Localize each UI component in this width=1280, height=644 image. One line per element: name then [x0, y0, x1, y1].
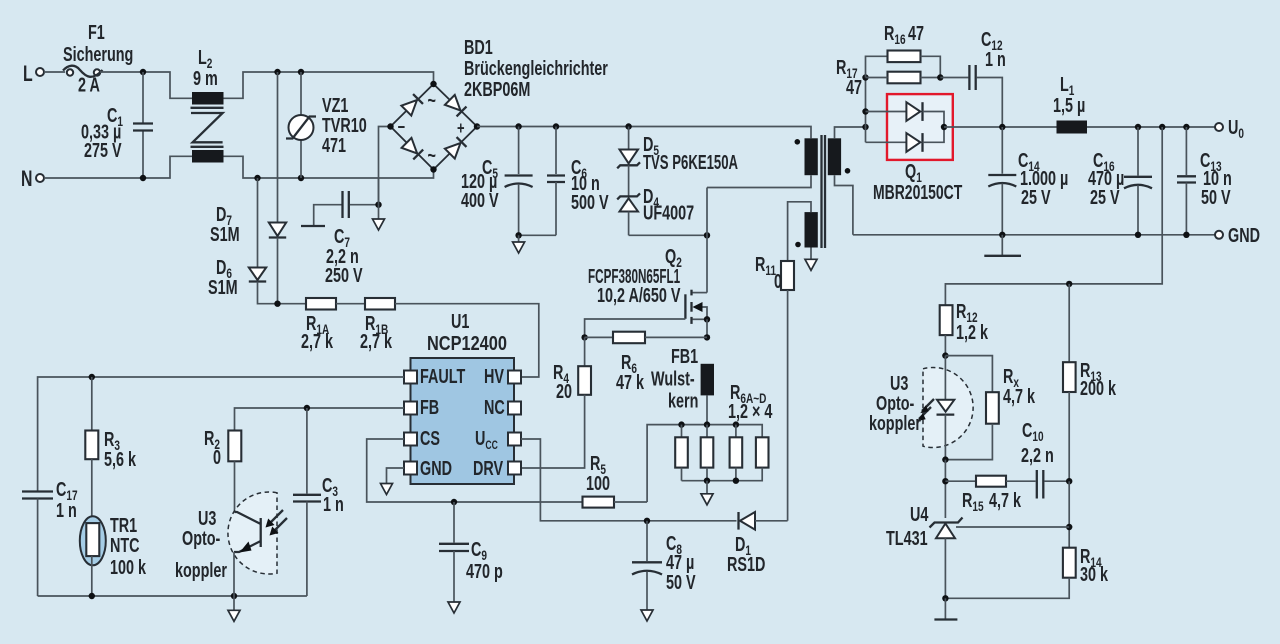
diode D4: [617, 165, 707, 235]
junction C1 top: [140, 69, 146, 75]
transformer auxiliary winding: [788, 202, 818, 261]
junction D6 top: [254, 175, 260, 181]
svg-text:1,2 × 4: 1,2 × 4: [728, 400, 773, 423]
resistor R1B: [360, 298, 395, 353]
wire source to R6 node: [706, 319, 708, 337]
svg-text:DRV: DRV: [473, 457, 503, 480]
svg-text:2KBP06M: 2KBP06M: [464, 78, 530, 101]
capacitor C13: [1177, 127, 1232, 235]
ground below C8: [641, 610, 653, 621]
junction C10 right: [1066, 478, 1072, 484]
choke L2: [191, 46, 224, 163]
capacitor C8 (electrolytic): [632, 521, 696, 610]
junction LED cathode: [942, 456, 948, 462]
wire bridge minus to C7 node: [379, 127, 391, 205]
svg-text:Opto-: Opto-: [182, 527, 221, 550]
svg-text:2,7 k: 2,7 k: [301, 330, 333, 353]
ground rail bottom left: [38, 595, 307, 597]
fuse F1: [63, 21, 133, 96]
junction Q1 cathode: [941, 124, 947, 130]
svg-text:1,2 k: 1,2 k: [956, 321, 988, 344]
resistor R6D: [728, 381, 773, 468]
transformer TR primary winding: [707, 138, 818, 187]
svg-text:NCP12400: NCP12400: [427, 332, 507, 355]
svg-text:0: 0: [774, 270, 782, 293]
junction D7 bottom: [274, 301, 280, 307]
svg-text:S1M: S1M: [210, 223, 240, 246]
pin FAULT: [404, 371, 417, 384]
junction R13 top: [1066, 281, 1072, 287]
svg-text:FAULT: FAULT: [420, 365, 466, 388]
junction LED anode: [942, 352, 948, 358]
output ground bar below C14: [984, 235, 1021, 256]
resistor R11: [755, 253, 794, 521]
junction feedback tap: [1159, 124, 1165, 130]
resistor R4: [521, 337, 591, 468]
resistor R6B: [701, 425, 714, 481]
junction shunt top c: [733, 421, 739, 427]
svg-text:FB: FB: [420, 396, 439, 419]
wire FB line: [235, 408, 405, 431]
svg-text:4,7 k: 4,7 k: [989, 489, 1021, 512]
junction R6 left / R4 top: [581, 334, 587, 340]
capacitor C16 (electrolytic): [1088, 127, 1152, 235]
junction Q2 source: [704, 316, 710, 322]
junction C8 top: [644, 518, 650, 524]
svg-text:F1: F1: [88, 21, 105, 44]
svg-text:470 p: 470 p: [466, 560, 503, 583]
junction C16 bottom: [1135, 232, 1141, 238]
junction TR1 bottom: [89, 593, 95, 599]
svg-text:N: N: [21, 168, 32, 192]
svg-text:Wulst-: Wulst-: [651, 367, 695, 390]
junction R16 right: [937, 74, 943, 80]
svg-text:250 V: 250 V: [325, 264, 363, 287]
junction C16: [1135, 124, 1141, 130]
wire R13 to R14 column: [1068, 481, 1070, 548]
pin DRV: [508, 462, 521, 475]
svg-text:2 A: 2 A: [78, 73, 100, 96]
junction C5: [515, 123, 521, 129]
svg-text:275 V: 275 V: [84, 139, 122, 162]
diode D5 TVS: [617, 127, 738, 174]
junction D5: [625, 123, 631, 129]
svg-text:HV: HV: [484, 365, 504, 388]
capacitor C7: [314, 178, 379, 287]
svg-text:471: 471: [322, 134, 346, 157]
svg-text:1,5 µ: 1,5 µ: [1053, 94, 1085, 117]
svg-text:RS1D: RS1D: [727, 553, 765, 576]
resistor R2: [204, 427, 241, 512]
svg-text:30 k: 30 k: [1080, 563, 1108, 586]
junction C13 bottom: [1183, 232, 1189, 238]
svg-text:50 V: 50 V: [666, 571, 696, 594]
resistor R6A: [675, 425, 688, 481]
inductor L1: [1053, 73, 1087, 134]
junction C3 top: [304, 405, 310, 411]
resistor R15: [945, 476, 1035, 515]
svg-text:TL431: TL431: [886, 527, 928, 550]
svg-text:100 k: 100 k: [110, 556, 146, 579]
svg-text:5,6 k: 5,6 k: [104, 448, 136, 471]
resistor R12: [940, 300, 989, 356]
capacitor C14 (electrolytic): [988, 127, 1068, 235]
dual diode Q1 bottom half: [866, 127, 963, 204]
ground below rail: [228, 596, 240, 621]
red highlight box around Q1: [887, 94, 953, 160]
svg-text:CS: CS: [420, 427, 440, 450]
svg-text:2,2 n: 2,2 n: [1021, 444, 1054, 467]
shunt network R6A~D top rail: [647, 425, 762, 502]
junction TL431 anode: [942, 595, 948, 601]
diode D6: [208, 178, 266, 299]
resistor R1A: [301, 298, 336, 353]
svg-text:L: L: [23, 63, 33, 87]
svg-text:U1: U1: [451, 310, 470, 333]
wire L1 to U0: [1087, 126, 1215, 128]
svg-text:−: −: [398, 118, 406, 138]
svg-text:NC: NC: [484, 396, 505, 419]
junction C1 bottom: [140, 175, 146, 181]
thermistor TR1 NTC: [80, 514, 146, 596]
wire L to fuse: [44, 71, 65, 73]
terminal N: [21, 168, 44, 192]
capacitor C3: [293, 408, 344, 596]
ground (primary) below C7 node: [373, 205, 385, 230]
svg-text:TVS P6KE150A: TVS P6KE150A: [643, 151, 738, 174]
resistor Rx: [945, 356, 1035, 460]
capacitor C12: [940, 28, 1005, 127]
wire LED cathode down: [944, 460, 946, 518]
junction shunt bottom b: [733, 478, 739, 484]
svg-text:UF4007: UF4007: [643, 201, 694, 224]
junction R17 left: [862, 74, 868, 80]
wire drain column: [706, 188, 708, 293]
svg-text:100: 100: [586, 472, 610, 495]
pin UCC: [508, 433, 521, 446]
junction VZ1 top: [298, 69, 304, 75]
junction Q1 anode mid: [862, 124, 868, 130]
svg-text:GND: GND: [420, 457, 452, 480]
transformer core: [822, 135, 826, 248]
wire TL431 ref line: [956, 526, 1069, 528]
junction C7 right: [375, 202, 381, 208]
wire N to L2 bottom winding: [44, 156, 192, 178]
capacitor C1: [81, 72, 153, 178]
svg-text:47 k: 47 k: [616, 371, 644, 394]
varistor VZ1: [286, 72, 367, 178]
junction D7 top: [274, 69, 280, 75]
phase dot primary: [795, 139, 801, 145]
svg-text:~: ~: [428, 144, 436, 167]
capacitor C9: [439, 502, 503, 602]
svg-text:GND: GND: [1228, 224, 1260, 247]
svg-text:400 V: 400 V: [461, 189, 499, 212]
transistor Q2: [588, 245, 707, 324]
svg-text:10,2 A/650 V: 10,2 A/650 V: [597, 284, 681, 307]
wire gate line: [585, 319, 686, 337]
junction C13: [1183, 124, 1189, 130]
junction C12/C14 column: [999, 124, 1005, 130]
wire L2 bottom to bridge bottom: [224, 156, 434, 178]
ground below aux winding: [805, 259, 817, 270]
svg-text:koppler: koppler: [175, 559, 227, 582]
wire output line: [944, 126, 1057, 128]
terminal L: [23, 63, 44, 87]
svg-text:1 n: 1 n: [985, 48, 1006, 71]
wire CS line: [367, 439, 583, 502]
resistor R13: [1063, 284, 1116, 481]
diode D1: [727, 512, 788, 576]
phase dot auxiliary: [795, 242, 801, 248]
svg-text:25 V: 25 V: [1090, 186, 1120, 209]
junction shunt top a: [678, 421, 684, 427]
phase dot secondary: [845, 168, 851, 174]
svg-text:1 n: 1 n: [56, 499, 77, 522]
svg-text:FB1: FB1: [671, 345, 698, 368]
ground below C9: [448, 602, 460, 613]
capacitor C17: [22, 478, 78, 596]
svg-text:NTC: NTC: [110, 534, 140, 557]
transformer secondary winding: [828, 127, 866, 235]
svg-text:2,7 k: 2,7 k: [360, 330, 392, 353]
svg-text:U4: U4: [910, 503, 929, 526]
svg-text:+: +: [457, 119, 465, 139]
terminal GND: [1215, 224, 1260, 247]
svg-text:MBR20150CT: MBR20150CT: [873, 181, 963, 204]
wire feedback tap down: [945, 127, 1162, 305]
svg-text:1 n: 1 n: [323, 493, 344, 516]
svg-text:Sicherung: Sicherung: [63, 43, 133, 66]
capacitor C10: [1021, 419, 1069, 499]
junction R15 left: [942, 478, 948, 484]
output ground bar below TL431: [934, 598, 957, 619]
optocoupler U3 LED side: [869, 356, 973, 460]
wire Q1 anode column: [865, 78, 867, 143]
wire GND pin stem: [387, 468, 405, 484]
svg-text:20: 20: [556, 380, 572, 403]
pin CS: [404, 433, 417, 446]
junction R6 right / FB1 top: [704, 334, 710, 340]
shunt network bottom rail: [682, 468, 763, 481]
resistor R3: [85, 377, 136, 523]
svg-text:4,7 k: 4,7 k: [1003, 385, 1035, 408]
svg-text:9 m: 9 m: [193, 67, 218, 90]
terminal U0: [1215, 116, 1244, 142]
IC U1 NCP12400: [411, 310, 515, 484]
svg-text:25 V: 25 V: [1021, 186, 1051, 209]
pin NC: [508, 402, 521, 415]
svg-text:S1M: S1M: [208, 276, 238, 299]
wire DC+ rail: [477, 127, 811, 139]
wire fuse to L2, jog down: [100, 72, 192, 98]
svg-text:47: 47: [908, 22, 924, 45]
wire R1A to R1B: [336, 303, 365, 305]
resistor R6: [585, 332, 707, 394]
resistor R6C: [730, 425, 743, 481]
svg-text:BD1: BD1: [464, 36, 493, 59]
svg-text:200 k: 200 k: [1080, 377, 1116, 400]
wire FAULT line: [38, 377, 404, 491]
wire L2 top to bridge top: [224, 72, 434, 98]
wire startup line D6/D7 to R1A: [258, 282, 307, 304]
junction TL431 ref: [1066, 524, 1072, 530]
junction C6: [553, 123, 559, 129]
svg-text:47: 47: [846, 76, 862, 99]
junction C5 bottom: [515, 232, 521, 238]
junction R3 top: [89, 374, 95, 380]
junction opto emitter: [231, 593, 237, 599]
ground below C5: [513, 235, 525, 253]
bridge rectifier BD1: [387, 36, 608, 173]
capacitor C5 (electrolytic): [461, 127, 533, 236]
pin HV: [508, 371, 521, 384]
wire GND line: [853, 234, 1215, 236]
svg-text:Brückengleichrichter: Brückengleichrichter: [464, 57, 608, 80]
pin GND: [404, 462, 417, 475]
shunt regulator U4 TL431: [886, 503, 963, 599]
pin FB: [404, 402, 417, 415]
diode D7: [210, 72, 286, 304]
resistor R16: [866, 22, 941, 78]
svg-text:koppler: koppler: [869, 412, 921, 435]
svg-text:kern: kern: [668, 389, 698, 412]
signal ground bar below C7: [301, 225, 325, 227]
ferrite bead FB1: [651, 345, 714, 425]
ground at GND pin: [381, 484, 393, 495]
wire UCC line: [521, 439, 737, 521]
junction C9 top: [451, 499, 457, 505]
junction Q1 anode top: [862, 108, 868, 114]
ground below shunt: [701, 481, 713, 505]
svg-text:500 V: 500 V: [571, 191, 609, 214]
capacitor C6: [519, 127, 609, 236]
resistor R17: [836, 56, 940, 99]
dual diode Q1 top half: [866, 102, 945, 127]
junction C14 bottom: [999, 232, 1005, 238]
junction VZ1 bottom: [298, 175, 304, 181]
resistor R5: [583, 452, 648, 508]
svg-text:50 V: 50 V: [1201, 186, 1231, 209]
resistor R14: [945, 545, 1108, 599]
junction drain clamp: [704, 232, 710, 238]
junction shunt top b: [704, 421, 710, 427]
junction shunt bottom a: [704, 478, 710, 484]
wire R1B to HV pin: [395, 304, 539, 377]
svg-text:0: 0: [213, 446, 221, 469]
svg-text:~: ~: [428, 89, 436, 112]
optocoupler U3 phototransistor: [175, 492, 287, 596]
